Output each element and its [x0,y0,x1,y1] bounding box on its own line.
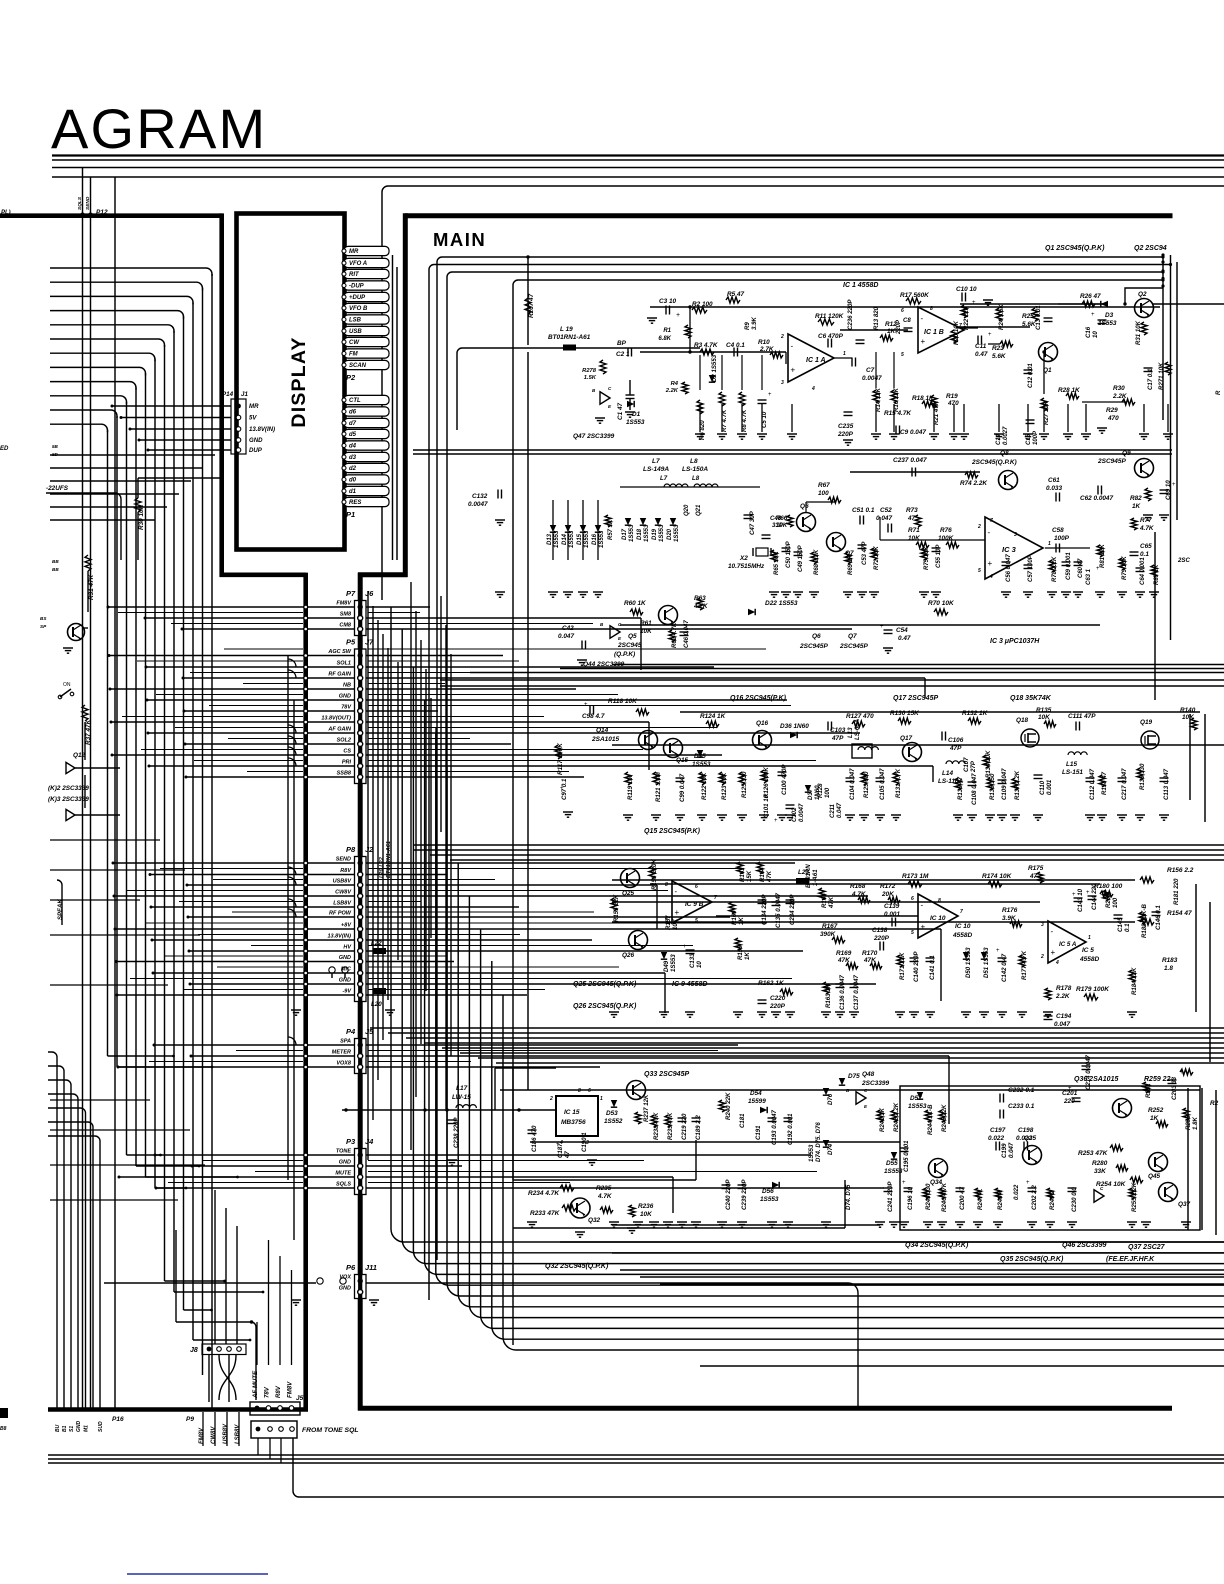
connector P4 overlay [355,1039,367,1074]
svg-text:C46 0.047: C46 0.047 [684,620,690,648]
svg-text:R60 1K: R60 1K [624,600,646,607]
svg-text:CW8V: CW8V [335,889,352,895]
svg-text:2.2K: 2.2K [1112,393,1127,400]
wire L19 row [462,347,700,349]
svg-text:0.047: 0.047 [876,515,892,522]
svg-text:LS-66A: LS-66A [854,719,861,740]
svg-text:0.47: 0.47 [975,351,988,358]
svg-text:8: 8 [938,898,941,904]
svg-text:R259 22: R259 22 [1144,1076,1171,1083]
svg-text:13.8V(IN): 13.8V(IN) [249,426,275,433]
svg-text:4.7K: 4.7K [597,1193,612,1200]
svg-text:R31 47K: R31 47K [88,574,95,600]
svg-text:5: 5 [901,352,904,358]
svg-text:RES: RES [349,500,361,506]
svg-text:10K: 10K [1038,714,1050,721]
transistor Q25 [621,869,640,888]
svg-text:5.6K: 5.6K [992,353,1006,360]
svg-text:C65: C65 [1140,543,1152,550]
svg-text:+: + [972,300,976,306]
svg-text:R234 4.7K: R234 4.7K [528,1190,560,1197]
svg-text:C143 10: C143 10 [1077,888,1084,912]
svg-text:P1: P1 [346,510,355,519]
svg-text:4: 4 [1055,960,1059,966]
ground [595,417,605,419]
wire elbow [288,659,296,667]
svg-text:R178: R178 [1056,985,1072,992]
svg-text:D1: D1 [632,411,641,418]
svg-text:B8: B8 [0,1426,7,1432]
svg-text:CW8V: CW8V [211,1426,217,1444]
wire feeder left [287,655,289,1180]
pin CW overlay [344,337,389,346]
svg-text:10: 10 [1092,331,1099,338]
svg-text:D51 1S553: D51 1S553 [983,947,990,978]
wire trunk through connector [358,649,362,784]
svg-text:R130 15K: R130 15K [890,710,919,717]
svg-text:R135: R135 [1036,707,1052,714]
svg-text:0.022: 0.022 [1013,1184,1020,1200]
wire trunk through connector [358,1149,362,1195]
wire row main [366,688,576,690]
svg-text:2: 2 [1040,954,1044,960]
wire trunk mid vertical [303,573,308,1411]
wire row main [366,874,446,876]
svg-text:100: 100 [1112,897,1119,908]
wire row [156,1187,354,1189]
svg-text:IC 3 μPC1037H: IC 3 μPC1037H [990,638,1040,645]
svg-text:R9: R9 [744,322,751,330]
svg-text:RIT: RIT [349,272,360,278]
svg-text:d3: d3 [349,455,357,461]
svg-text:2SC945P: 2SC945P [839,643,868,650]
svg-text:Q46 2SC3399: Q46 2SC3399 [1062,1242,1106,1249]
wire J8 feeds up [214,1190,216,1344]
wire elbow [288,725,296,733]
wire row main [366,950,803,952]
svg-text:DISPLAY: DISPLAY [288,336,310,427]
ground [369,1299,379,1301]
svg-text:Q15: Q15 [676,757,689,764]
svg-text:D2 1S553: D2 1S553 [711,354,718,382]
ground row band1 [699,404,701,432]
svg-text:0.001: 0.001 [1046,779,1053,795]
svg-text:0.047: 0.047 [1008,1142,1015,1158]
wire band5 long [500,1089,1200,1091]
svg-text:R248 4: R248 4 [997,1190,1004,1210]
pin FM overlay [344,349,389,358]
pin LSB [344,315,389,324]
svg-text:2SC945(Q.P.K): 2SC945(Q.P.K) [971,459,1017,466]
pin d0 [344,475,389,484]
wire bundle main-left [410,582,412,1150]
svg-text:15K: 15K [746,870,753,882]
transistor Q16 [753,731,772,750]
svg-text:R267 47: R267 47 [528,293,535,318]
wire band1 rows [650,306,1160,308]
svg-text:13.8V(IN): 13.8V(IN) [327,933,351,939]
svg-text:C8: C8 [903,317,911,324]
pin SCAN [344,360,389,369]
MAIN box top border [405,213,1173,218]
svg-text:6: 6 [695,884,698,890]
svg-text:L8: L8 [692,475,700,482]
wire bus nest MAIN [437,257,1163,1260]
wire [174,1291,263,1293]
wire row [118,1066,354,1068]
svg-text:+: + [791,366,796,375]
svg-text:S1: S1 [69,1426,75,1432]
wire row [113,862,354,864]
pin d1 overlay [344,486,389,495]
svg-text:Q14: Q14 [596,727,609,734]
svg-text:Q6: Q6 [812,633,821,640]
svg-text:R132 1K: R132 1K [962,710,988,717]
svg-text:27P: 27P [970,760,977,773]
svg-text:10K: 10K [776,522,788,529]
pin CTL [344,395,389,404]
wire [146,1176,238,1178]
wire [87,571,89,612]
svg-text:d5: d5 [349,432,357,438]
svg-text:C195 0.001: C195 0.001 [903,1140,910,1172]
svg-text:C220: C220 [770,995,786,1002]
IC15 MB3756 [556,1096,598,1136]
svg-text:C239 220P: C239 220P [741,1179,748,1210]
svg-text:USB: USB [349,329,362,335]
transistor Q1 [1039,343,1058,362]
svg-text:D18: D18 [637,528,643,540]
op-amp IC3 [985,517,1043,579]
svg-text:+: + [1172,482,1176,488]
svg-text:M1: M1 [84,1425,90,1432]
ground [625,411,635,413]
svg-text:6.8K: 6.8K [658,336,671,342]
wire row main [366,606,430,608]
svg-text:1S553: 1S553 [584,530,590,548]
svg-text:R1: R1 [663,328,671,334]
svg-text:C181: C181 [739,1113,746,1128]
wire elbow [288,909,296,917]
pin FM [344,349,389,358]
pin d7 [344,418,389,427]
wire top into MAIN [382,186,1224,600]
svg-text:C107: C107 [963,757,970,772]
wire vertical SQLS down [82,218,84,1408]
svg-text:0.047: 0.047 [1054,1021,1070,1028]
svg-text:2SC: 2SC [1177,557,1190,564]
svg-text:1S553: 1S553 [626,419,645,426]
svg-text:5D: 5D [52,452,59,457]
svg-text:L7: L7 [660,475,668,482]
svg-text:Q36 2SA1015: Q36 2SA1015 [1074,1076,1118,1083]
svg-text:R66: R66 [776,515,788,522]
pin VFO A [344,258,389,267]
svg-text:R8V: R8V [275,1385,282,1398]
connector P3 overlay [355,1149,367,1195]
pin d5 overlay [344,429,389,438]
wire row main [366,754,722,756]
svg-text:FM8V: FM8V [287,1381,294,1398]
svg-text:+: + [1086,890,1090,896]
svg-text:Q35: Q35 [1024,1135,1037,1142]
ground [291,1299,301,1301]
svg-text:Q18: Q18 [1016,717,1029,724]
svg-text:IC 10: IC 10 [930,915,946,922]
ground [647,317,657,319]
svg-text:0.0047: 0.0047 [799,803,805,822]
pin MR [344,246,389,255]
wire SEND [90,177,92,215]
svg-text:IC 9 4558D: IC 9 4558D [672,981,707,988]
svg-text:C146 0.1: C146 0.1 [1155,905,1162,930]
coil L7 [664,484,688,487]
svg-text:C63 1: C63 1 [1086,568,1092,585]
svg-text:SM8: SM8 [340,611,352,617]
svg-text:C236 220P: C236 220P [847,299,854,330]
svg-text:R62 4.7K: R62 4.7K [672,622,678,648]
svg-text:C47 30P: C47 30P [749,510,756,535]
svg-text:+: + [584,702,588,708]
svg-text:C217 0.047: C217 0.047 [1121,768,1128,800]
svg-text:C50 150P: C50 150P [786,540,792,568]
svg-text:R278: R278 [582,368,597,374]
svg-text:AGC SW: AGC SW [327,649,351,655]
svg-text:2.2K: 2.2K [665,388,679,394]
wire to J1 [112,405,231,407]
svg-text:1S552: 1S552 [604,1118,623,1125]
svg-text:C240 220P: C240 220P [725,1179,732,1210]
svg-text:C105 0.047: C105 0.047 [879,768,886,800]
resistor R5 47 [726,297,740,303]
svg-text:X2: X2 [739,555,748,562]
mic jack VOX [317,1278,323,1284]
svg-text:GND: GND [249,437,263,444]
svg-text:C12 0.01: C12 0.01 [1027,363,1034,388]
ground row band5 [527,1221,537,1223]
svg-text:LS-149A: LS-149A [643,466,669,473]
svg-text:220P: 220P [873,935,890,942]
svg-text:220P: 220P [837,431,854,438]
transistor Q35 [1023,1146,1042,1165]
svg-text:MUTE: MUTE [335,1170,351,1176]
svg-text:CM8: CM8 [339,622,352,628]
svg-text:NB: NB [343,682,351,688]
wire row [191,1055,354,1057]
pin d2 overlay [344,463,389,472]
svg-text:Q7: Q7 [848,633,857,640]
pin USB overlay [344,326,389,335]
buffer Q46 [1094,1190,1104,1203]
svg-text:ED: ED [0,446,9,452]
svg-text:R249 2: R249 2 [1049,1190,1056,1210]
svg-text:1.5K: 1.5K [584,375,597,381]
svg-text:IC 5 A: IC 5 A [1059,941,1077,948]
svg-text:R73: R73 [906,507,918,514]
buffer Q12 [66,762,75,773]
svg-text:VFO A: VFO A [349,261,367,267]
svg-text:L13: L13 [847,727,854,738]
svg-text:d4: d4 [349,444,357,450]
svg-text:47P: 47P [831,735,844,742]
svg-text:D53: D53 [606,1110,618,1117]
transistor Q45 [1149,1153,1168,1172]
svg-text:C103: C103 [830,727,846,734]
svg-text:47K: 47K [863,957,876,964]
svg-text:1: 1 [843,351,846,357]
svg-text:D16: D16 [592,533,598,545]
wire right-edge cluster [1162,255,1164,420]
wire J5 pin up [268,1240,270,1365]
svg-text:R30: R30 [1113,385,1125,392]
wire row main [366,677,925,679]
svg-text:RF GAIN: RF GAIN [328,671,352,677]
pin d3 [344,452,389,461]
wire trunk jog [220,572,307,577]
svg-text:C113 0.047: C113 0.047 [1163,768,1170,800]
svg-text:+: + [774,818,778,824]
svg-text:C194: C194 [1056,1013,1072,1020]
resistor R31 47K [85,555,91,571]
MAIN box trunk vertical [358,573,363,1411]
wire trunk bottom [48,1407,308,1412]
svg-text:C241 220P: C241 220P [887,1181,894,1212]
svg-text:R175: R175 [1028,865,1044,872]
svg-text:10K: 10K [672,918,679,930]
svg-text:C106: C106 [948,737,964,744]
svg-text:J4: J4 [365,1137,374,1146]
svg-text:0.047: 0.047 [837,802,843,818]
wire [165,1280,225,1282]
svg-text:4: 4 [811,386,815,392]
wire row main [366,765,933,767]
pin VFO B overlay [344,303,389,312]
connector P12 [81,213,85,217]
svg-text:3: 3 [1014,532,1017,538]
wire [84,722,86,760]
svg-text:6: 6 [901,308,904,314]
svg-text:R236: R236 [638,1203,654,1210]
svg-text:+: + [676,312,680,319]
svg-text:d2: d2 [349,466,357,472]
pin d5 [344,429,389,438]
wire ladder collectors [392,255,394,560]
svg-text:IC 15: IC 15 [564,1109,580,1116]
wire row [146,666,354,668]
svg-text:3: 3 [1041,922,1044,928]
svg-text:Q1 2SC945(Q.P.K): Q1 2SC945(Q.P.K) [1045,245,1105,252]
wire SQLS [82,168,84,215]
svg-text:+: + [1096,566,1100,572]
svg-text:R174 10K: R174 10K [982,873,1013,880]
svg-text:GND: GND [339,1159,351,1165]
svg-text:R19: R19 [946,393,958,400]
svg-text:J11: J11 [365,1263,377,1272]
wire row main [366,928,941,930]
svg-text:Q25 2SC945(Q.P.K): Q25 2SC945(Q.P.K) [573,981,637,988]
svg-text:C13 0.01: C13 0.01 [1035,305,1042,330]
wire row main [366,743,511,745]
svg-text:+: + [1180,1070,1184,1076]
svg-text:+: + [880,624,884,630]
svg-text:CTL: CTL [349,398,361,404]
svg-text:3: 3 [781,380,784,386]
svg-text:C235: C235 [838,423,854,430]
svg-text:C133: C133 [689,953,696,968]
svg-text:Q9: Q9 [1122,450,1131,457]
connector FROM TONE SQL [251,1421,297,1438]
svg-text:R10: R10 [758,339,770,346]
connector P8 overlay [355,857,367,1002]
svg-text:C108 0.047: C108 0.047 [971,773,978,805]
svg-text:C237 0.047: C237 0.047 [893,457,927,464]
op-amp IC5A [1048,921,1086,963]
svg-text:AGRAM: AGRAM [51,97,267,160]
svg-text:R156 2.2: R156 2.2 [1167,867,1194,874]
hyperlink underline [127,1573,268,1575]
svg-text:C111 47P: C111 47P [1068,713,1096,720]
svg-text:+: + [1026,1180,1030,1186]
svg-text:1S553: 1S553 [809,1144,815,1162]
pin d6 [344,407,389,416]
svg-text:Q44 2SC3399: Q44 2SC3399 [583,661,625,668]
svg-text:R71: R71 [908,527,920,534]
svg-text:C9 0.047: C9 0.047 [900,429,926,436]
svg-text:470: 470 [1107,415,1119,422]
svg-text:D35: D35 [694,753,706,760]
svg-text:C61: C61 [1048,477,1060,484]
svg-text:R136 150: R136 150 [989,773,996,800]
pin d2 [344,463,389,472]
svg-text:-: - [1051,927,1054,936]
svg-text:R61: R61 [640,620,652,627]
wire trunk through connector [358,1039,362,1074]
pin VFO B [344,303,389,312]
svg-text:R82: R82 [1130,495,1142,502]
svg-text:R173 1M: R173 1M [902,873,929,880]
svg-text:FM: FM [349,352,359,358]
svg-text:2SA1015: 2SA1015 [591,736,619,743]
crystal X2 [756,548,768,556]
wire row [184,710,354,712]
svg-text:L14: L14 [942,770,953,777]
svg-text:MR: MR [349,249,359,255]
svg-text:5: 5 [911,930,914,936]
wire row [112,754,354,756]
wire row main [366,655,503,657]
buffer Q [66,809,75,820]
svg-text:USB8V: USB8V [333,878,353,884]
wire row main [366,1055,949,1057]
wire row [150,874,354,876]
connector J5 bottom [250,1402,300,1415]
svg-text:2: 2 [977,524,981,530]
wire row [115,928,354,930]
wire band2 long [620,624,1100,626]
svg-text:Q8: Q8 [1000,450,1009,457]
svg-text:1K: 1K [738,917,745,925]
wire elbow [288,877,296,885]
svg-text:C234 220P: C234 220P [789,894,796,925]
pin d4 overlay [344,441,389,450]
svg-text:1S553: 1S553 [569,530,575,548]
svg-text:R124 1K: R124 1K [700,713,726,720]
transistor Q13 [68,624,85,641]
svg-text:SPA: SPA [340,1038,351,1044]
svg-text:L7: L7 [652,458,660,465]
svg-text:D54: D54 [750,1090,762,1097]
transistor Q9 [1135,459,1154,478]
